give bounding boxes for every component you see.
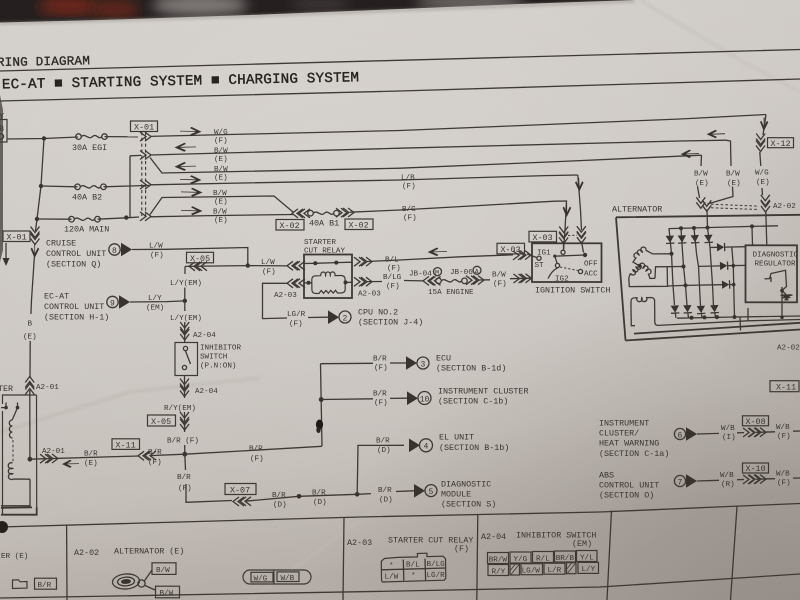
svg-text:L/B: L/B	[401, 175, 415, 183]
battery box fragment at left edge	[0, 120, 7, 143]
wire L/Y down from junction	[184, 301, 186, 311]
connector A2-01 chevrons up	[25, 377, 34, 388]
connector X-01 chevrons wire1	[140, 132, 151, 141]
svg-text:A2-02: A2-02	[74, 548, 99, 558]
svg-text:A2-04: A2-04	[481, 532, 506, 542]
connector X-05 chevrons	[189, 262, 200, 271]
starter coil lower	[8, 463, 30, 480]
svg-text:(E): (E)	[214, 199, 228, 207]
rectifier diode column 1	[666, 229, 675, 306]
fuse 15A ENGINE	[436, 278, 468, 284]
svg-text:30A EGI: 30A EGI	[72, 143, 107, 153]
node 8 circle	[109, 244, 120, 256]
node B- regulator tap	[780, 315, 784, 319]
big dot staple at left edge	[0, 521, 8, 533]
connector A2-02 chevron W/G	[761, 195, 770, 206]
rotor field coil	[631, 298, 800, 326]
node 5 circle	[425, 485, 437, 497]
triangle arrow node 2	[328, 310, 339, 324]
wire B/W no1 corner down	[708, 140, 734, 204]
svg-text:B/LG: B/LG	[383, 274, 402, 282]
svg-text:A2-01: A2-01	[42, 448, 65, 456]
svg-text:X-07: X-07	[230, 486, 250, 496]
svg-text:X-03: X-03	[501, 245, 521, 255]
svg-text:R/Y: R/Y	[492, 568, 506, 576]
blurred gray object top	[152, 0, 248, 16]
svg-text:10: 10	[420, 395, 430, 404]
svg-text:L/R: L/R	[548, 567, 562, 575]
node 6 circle	[674, 428, 685, 440]
svg-text:B/W: B/W	[160, 590, 174, 598]
svg-text:(E): (E)	[84, 460, 98, 468]
wire to X-10	[737, 479, 744, 481]
svg-text:B/R: B/R	[272, 492, 286, 500]
svg-text:B: B	[0, 124, 4, 134]
connector X-07 chevrons	[233, 497, 244, 506]
arrow left below B/R bus	[62, 460, 79, 468]
regulator transistor	[765, 270, 787, 317]
wire B/R bus from starter	[30, 456, 139, 459]
label X-02 left box	[276, 220, 304, 232]
starter box	[3, 395, 37, 514]
connector chevrons 15A left	[423, 276, 434, 285]
connector X-05 lower chevrons	[180, 412, 189, 423]
connector X-12 chevrons	[756, 134, 765, 145]
svg-text:A2-02: A2-02	[777, 345, 800, 353]
svg-text:(SECTION O): (SECTION O)	[599, 491, 654, 501]
svg-text:B/R: B/R	[84, 451, 98, 459]
node bus top	[42, 136, 46, 140]
svg-text:(F): (F)	[250, 456, 264, 464]
arrow left on B/W2	[175, 162, 197, 171]
ignition switch contacts	[535, 250, 599, 284]
B/W pin box upper	[152, 563, 176, 575]
svg-text:CLUSTER/: CLUSTER/	[599, 429, 639, 439]
svg-text:W/G: W/G	[755, 170, 769, 178]
wire fuse 30A to X-01	[105, 136, 139, 138]
svg-text:(SECTION B-1d): (SECTION B-1d)	[436, 364, 506, 374]
svg-text:(R): (R)	[721, 481, 735, 489]
A2-04 pin row1	[488, 551, 598, 565]
photo background dark table at top	[0, 0, 800, 40]
starter cut relay box	[304, 255, 352, 299]
connector X-01 lower label box	[3, 231, 30, 243]
wire to node 3	[390, 362, 406, 364]
svg-text:B/L: B/L	[385, 257, 399, 265]
svg-text:L/W: L/W	[385, 574, 399, 582]
connector X-02 chevrons left	[292, 209, 303, 218]
svg-text:R/Y(EM): R/Y(EM)	[164, 405, 196, 413]
connector X-10 chevrons	[743, 475, 754, 484]
regulator ground	[781, 295, 793, 300]
svg-text:B/R: B/R	[376, 438, 390, 446]
inhibitor switch contacts	[183, 346, 187, 350]
node top bus col4	[706, 226, 710, 230]
svg-text:EC-AT: EC-AT	[44, 292, 69, 302]
svg-text:(F): (F)	[493, 281, 507, 289]
svg-text:INSTRUMENT: INSTRUMENT	[599, 419, 649, 429]
svg-text:B/G: B/G	[402, 206, 416, 214]
svg-text:B/R: B/R	[373, 356, 387, 364]
wire B(E) inside starter down to B/R node	[29, 395, 31, 459]
wire B/LG from relay coil to 15A fuse	[367, 281, 423, 282]
arrow down on B/G vertical	[563, 203, 572, 217]
W/G W/B pill connector	[243, 570, 311, 585]
wire below inhibitor	[184, 376, 186, 399]
label X-11 box right edge	[770, 381, 799, 393]
title rule 1	[0, 50, 800, 72]
svg-text:3: 3	[421, 360, 426, 369]
arrow down on bus below X-01	[31, 244, 40, 258]
connector X-03 chevrons on B/L	[513, 251, 524, 260]
wire B/W no2 corner down	[698, 155, 702, 198]
triangle arrow node 4	[409, 439, 420, 453]
svg-text:R/L: R/L	[536, 555, 550, 563]
svg-text:B/LG: B/LG	[427, 561, 446, 569]
svg-text:A: A	[475, 268, 479, 275]
wire W/B (F) to edge lower	[756, 478, 800, 479]
svg-text:(D): (D)	[377, 447, 391, 455]
svg-text:L/W: L/W	[261, 259, 275, 267]
svg-text:JB-06: JB-06	[450, 269, 473, 277]
wire B/R (F) junction to riser corner	[185, 446, 322, 454]
svg-text:CONTROL UNIT: CONTROL UNIT	[46, 249, 106, 259]
svg-text:EC-AT ■ STARTING SYSTEM ■ CHAR: EC-AT ■ STARTING SYSTEM ■ CHARGING SYSTE…	[2, 70, 360, 93]
svg-text:W/G: W/G	[254, 575, 268, 583]
rectifier diode column 4	[704, 228, 713, 307]
connector X-03 chevrons on L/B vertical	[577, 226, 586, 237]
alternator eyelet connector icon	[112, 573, 145, 590]
fuse 40A B1	[308, 210, 340, 216]
svg-text:CONTROL UNIT: CONTROL UNIT	[599, 481, 659, 491]
svg-text:2: 2	[343, 314, 348, 323]
wire R/Y down	[184, 412, 186, 432]
triangle arrow node 7	[686, 474, 697, 488]
svg-text:(E): (E)	[695, 180, 709, 188]
ink smudge blob	[316, 420, 323, 430]
wire B/W (E) upper branch from 120A junction	[150, 196, 293, 215]
svg-text:B/W: B/W	[214, 166, 228, 174]
label X-10 box	[743, 463, 769, 474]
node phase3	[684, 283, 688, 287]
stator phase mid u-path	[655, 267, 684, 279]
label X-02 right box	[345, 219, 373, 231]
svg-text:8: 8	[112, 247, 117, 256]
rectifier diode column 2	[678, 228, 687, 305]
wire L/B vertical into switch	[578, 175, 584, 253]
svg-text:(D): (D)	[273, 502, 287, 510]
wire rotor return to box edge	[747, 308, 749, 321]
node phase1	[670, 252, 674, 256]
svg-text:X-01: X-01	[134, 123, 154, 133]
connector A2-02 dashed link	[711, 204, 759, 209]
connector X-01 label box	[131, 121, 158, 133]
wire B/L to ignition ST	[367, 254, 537, 262]
node 2 circle	[339, 311, 351, 323]
svg-text:(I): (I)	[722, 434, 736, 442]
wire W/G corner down to X-12	[760, 115, 766, 196]
node 4 circle	[420, 439, 433, 452]
svg-text:LG/R: LG/R	[287, 311, 306, 319]
svg-text:ALTERNATOR: ALTERNATOR	[612, 205, 662, 215]
label X-08 box	[743, 416, 769, 427]
triangle arrow node 5	[414, 484, 425, 498]
wire LG/R to node 2	[308, 316, 328, 318]
stator phase lower path	[629, 267, 686, 287]
svg-text:X-10: X-10	[746, 464, 766, 474]
connector X-03 chevrons on B/G vertical	[559, 227, 568, 238]
table top border	[0, 504, 800, 528]
svg-text:(F): (F)	[403, 215, 417, 223]
svg-text:CPU NO.2: CPU NO.2	[358, 308, 398, 318]
svg-text:DIAGNOSTIC: DIAGNOSTIC	[753, 252, 799, 260]
wire B/R (F) down from junction	[185, 454, 232, 502]
stator phase line top	[646, 250, 672, 254]
svg-text:W/B: W/B	[776, 424, 790, 432]
svg-text:X-01: X-01	[7, 233, 27, 243]
connector X-01 chevrons wire6	[140, 212, 151, 221]
svg-text:L/Y(EM): L/Y(EM)	[170, 280, 202, 288]
svg-text:B/W: B/W	[213, 209, 227, 217]
wire L/Y from node 9	[130, 301, 185, 302]
svg-text:M: M	[435, 270, 439, 277]
alternator box	[616, 215, 800, 341]
svg-text:STARTER: STARTER	[304, 239, 336, 247]
svg-text:(F): (F)	[777, 433, 791, 441]
svg-text:A2-04: A2-04	[195, 388, 218, 396]
svg-text:X-12: X-12	[771, 139, 791, 149]
wire W/B from node 6	[697, 432, 719, 435]
node stator star	[638, 264, 642, 268]
label X-03 box upper	[529, 231, 557, 243]
node top bus regulator tap	[750, 224, 754, 228]
inhibitor switch box	[175, 343, 198, 376]
svg-text:W/B: W/B	[281, 575, 295, 583]
table divider 2	[343, 518, 344, 600]
svg-text:A2-03: A2-03	[347, 538, 372, 548]
wire to A2-04	[184, 322, 186, 343]
stator coil lower	[629, 263, 655, 278]
wire L/W (F) right of junction to relay	[248, 265, 287, 267]
lower diode row col4	[710, 305, 719, 317]
trio vertical bus	[732, 247, 735, 317]
svg-text:120A MAIN: 120A MAIN	[64, 225, 109, 235]
blurred red object top-left	[38, 0, 98, 16]
wire B/W (E) lower straight to X-02	[150, 215, 293, 217]
lower diode row col1	[671, 305, 680, 318]
svg-text:(D): (D)	[379, 497, 393, 505]
svg-text:(SECTION B-1b): (SECTION B-1b)	[439, 443, 509, 453]
table divider 5	[731, 507, 738, 600]
svg-text:X-11: X-11	[776, 383, 796, 393]
wire eyelet to B/W boxes	[144, 570, 155, 590]
svg-text:IG2: IG2	[555, 276, 569, 284]
node cluster branch	[319, 397, 324, 402]
wire W/B from node 7	[697, 479, 719, 482]
svg-text:B/W: B/W	[726, 171, 740, 179]
svg-text:(E): (E)	[214, 175, 228, 183]
wire W/G entry into box	[766, 211, 767, 246]
svg-text:L/W: L/W	[149, 243, 163, 251]
connector A2-04 chevrons below	[180, 379, 189, 390]
wire W/G (F) long run to right	[150, 115, 766, 137]
wire regulator tap down	[751, 226, 754, 245]
connector X-03 dashed link	[568, 234, 577, 236]
arrow right on W/G	[180, 127, 202, 136]
wire junction down-branch vertical to wire2 level	[126, 155, 141, 217]
svg-text:(F): (F)	[454, 544, 469, 554]
svg-text:(E): (E)	[756, 179, 770, 187]
node 3 circle	[417, 357, 429, 369]
wire bottom bus stub down	[739, 317, 742, 331]
svg-text:ST: ST	[535, 262, 545, 270]
arrow down on W/G vertical	[760, 118, 768, 132]
svg-text:W/B: W/B	[721, 425, 735, 433]
wire 120A right to X-01 junction	[98, 218, 127, 219]
fuse 120A MAIN	[69, 216, 101, 222]
svg-text:B/R: B/R	[373, 391, 387, 399]
svg-text:B/W: B/W	[694, 171, 708, 179]
triangle arrow node 8	[121, 243, 132, 257]
node top bus col3	[692, 226, 696, 230]
wire B/W (E) no.2 diagonal from X-01	[150, 155, 702, 173]
node starter B/R terminal	[28, 457, 33, 462]
svg-text:(E): (E)	[23, 334, 37, 342]
node L/W junction	[246, 263, 250, 267]
rectifier diode column 3	[691, 228, 701, 306]
svg-text:(F): (F)	[777, 480, 791, 488]
label X-05 lower box	[148, 415, 176, 427]
svg-text:(EM): (EM)	[146, 305, 164, 313]
wire B/G (F) from fuse 40A B1 to ignition	[350, 201, 567, 250]
svg-text:X-05: X-05	[151, 417, 171, 427]
svg-text:B/W: B/W	[214, 148, 228, 156]
wire bus to 120A	[37, 218, 72, 220]
wire L/Y (EM) vertical from X-05 corner down	[184, 266, 186, 300]
triangle arrow node 3	[406, 356, 417, 370]
label X-11 box	[112, 439, 140, 451]
svg-text:B/R: B/R	[249, 446, 263, 454]
arrow left on B/W1	[175, 143, 197, 152]
svg-text:B/R (F): B/R (F)	[167, 438, 199, 446]
ignition switch box	[532, 243, 602, 282]
arrow right on B/W upper	[181, 188, 203, 197]
svg-text:IGNITION SWITCH: IGNITION SWITCH	[535, 286, 610, 296]
alternator B+ top bus	[669, 226, 779, 229]
main fuse bus vertical	[36, 139, 45, 232]
paper top edge shadow	[0, 1, 635, 24]
connector A2-04 chevrons down	[180, 322, 189, 333]
svg-text:LG/R: LG/R	[427, 572, 446, 580]
svg-text:(F): (F)	[178, 485, 192, 493]
wire X-05 branch left of junction	[185, 265, 248, 268]
wire B (E) down to starter	[30, 255, 35, 378]
starter solenoid contacts	[1, 403, 19, 410]
A2-03 pin connector outline	[381, 553, 446, 582]
relay coil loop	[304, 272, 352, 294]
connector chevrons relay left top (L/W)	[287, 261, 298, 270]
svg-text:A2-01: A2-01	[36, 384, 59, 392]
svg-text:B/R: B/R	[38, 582, 52, 590]
svg-text:7: 7	[678, 478, 683, 487]
node 7 circle	[674, 475, 685, 487]
svg-text:B/R: B/R	[177, 474, 191, 482]
svg-text:9: 9	[110, 299, 115, 308]
svg-text:(E): (E)	[214, 217, 228, 225]
svg-text:(F): (F)	[148, 459, 162, 467]
svg-text:L/Y(EM): L/Y(EM)	[170, 315, 202, 323]
svg-text:INHIBITOR: INHIBITOR	[200, 345, 241, 353]
trio diode D6	[699, 261, 746, 270]
wire W/B to X-08	[737, 432, 744, 434]
triangle arrow node 6	[686, 427, 697, 441]
connector X-01 chevrons wire2	[140, 151, 151, 160]
node 9 circle	[107, 296, 118, 308]
svg-text:B: B	[28, 321, 33, 329]
node X-07 bus b EL branch	[355, 492, 360, 497]
svg-text:Y: Y	[0, 112, 4, 122]
B/R pin box cell1	[35, 578, 57, 590]
svg-text:(SECTION S): (SECTION S)	[441, 500, 496, 510]
svg-text:4: 4	[424, 443, 429, 452]
fuse 30A EGI	[76, 134, 108, 140]
svg-text:L/Y: L/Y	[582, 566, 596, 574]
svg-text:DIAGNOSTIC: DIAGNOSTIC	[441, 480, 491, 490]
svg-text:(EM): (EM)	[572, 539, 592, 549]
svg-text:BR/W: BR/W	[489, 556, 508, 564]
svg-text:*: *	[411, 573, 416, 581]
svg-text:CRUISE: CRUISE	[46, 239, 76, 249]
svg-text:CONTROL UNIT: CONTROL UNIT	[44, 302, 104, 312]
triangle arrow node 9	[119, 295, 130, 309]
svg-text:(D): (D)	[313, 499, 327, 507]
svg-text:A2-04: A2-04	[193, 332, 216, 340]
svg-text:B/W: B/W	[492, 272, 506, 280]
svg-text:40A B1: 40A B1	[309, 219, 339, 229]
node trio D7	[732, 283, 736, 287]
starter inner return wires	[1, 479, 30, 506]
svg-text:X-08: X-08	[746, 417, 766, 427]
svg-text:OFF: OFF	[584, 261, 598, 269]
svg-text:(SECTION Q): (SECTION Q)	[46, 260, 101, 270]
connector chevrons relay right top (B/L)	[354, 257, 365, 266]
fuse 40A B2	[75, 184, 107, 190]
rotor coil left leg down	[631, 308, 635, 326]
svg-text:(F): (F)	[402, 183, 416, 191]
svg-text:A2-03: A2-03	[358, 291, 381, 299]
wire L/W to corner and down to junction	[167, 248, 248, 266]
wire W/B (F) to edge	[756, 431, 800, 432]
label X-12 box	[768, 138, 794, 149]
svg-text:B/R: B/R	[148, 449, 162, 457]
table divider 3	[477, 514, 478, 600]
svg-text:X-11: X-11	[116, 440, 136, 450]
svg-text:(F): (F)	[262, 269, 276, 277]
trio diode D7	[686, 280, 734, 289]
wire B/W entry into box	[706, 210, 709, 228]
wire B/W (E) no.1 run	[150, 140, 726, 155]
B/W pin box lower	[156, 586, 180, 598]
svg-text:X-03: X-03	[533, 233, 553, 243]
connector X-03 chevrons on B/W lower	[514, 274, 525, 283]
alternator B- bottom bus	[677, 316, 800, 318]
svg-text:A2-03: A2-03	[274, 292, 297, 300]
arrow right on B/W lower	[181, 206, 203, 215]
wire bus to 40A B2	[41, 185, 78, 188]
node 120A MAIN tap	[35, 217, 39, 221]
arrow left on B/L	[428, 247, 447, 256]
wire B/R down to bus junction	[184, 445, 186, 454]
